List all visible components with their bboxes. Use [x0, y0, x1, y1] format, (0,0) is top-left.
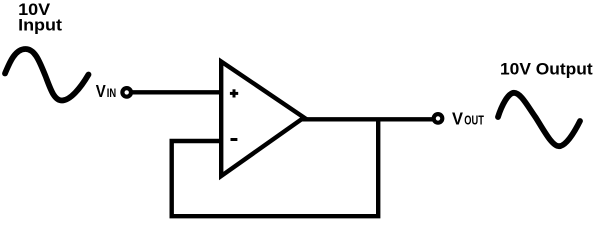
svg-text:V: V: [452, 109, 463, 129]
svg-text:IN: IN: [107, 86, 116, 100]
svg-text:OUT: OUT: [464, 113, 484, 128]
svg-text:10V Output: 10V Output: [500, 61, 593, 79]
svg-text:V: V: [96, 81, 106, 101]
svg-text:Input: Input: [18, 17, 63, 35]
